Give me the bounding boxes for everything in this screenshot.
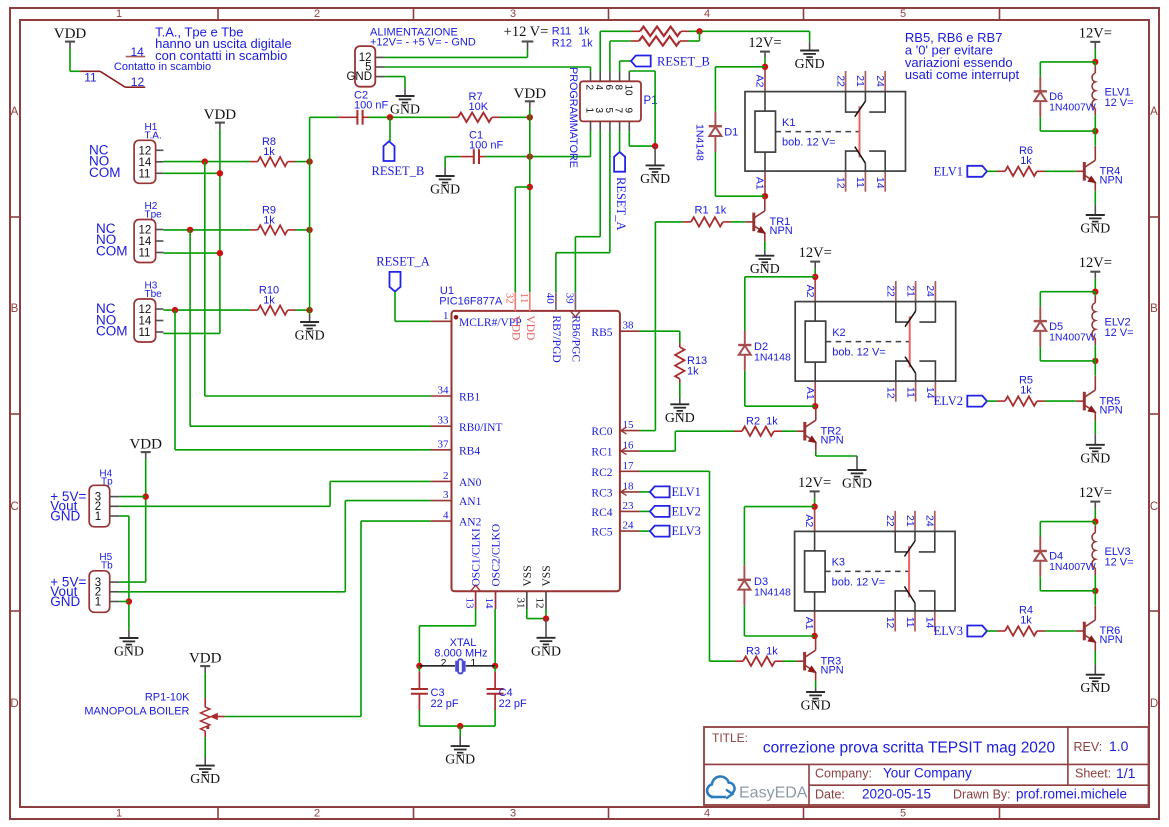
svg-text:RESET_B: RESET_B [372,164,425,178]
svg-text:1: 1 [116,808,122,820]
svg-text:1N4007W: 1N4007W [1049,561,1096,573]
svg-text:1: 1 [584,108,595,114]
svg-text:RP1-10K: RP1-10K [145,692,190,704]
svg-text:RC2: RC2 [591,467,612,479]
svg-text:Drawn By:: Drawn By: [953,788,1011,802]
svg-text:VDD: VDD [514,86,547,102]
svg-text:NPN: NPN [770,225,793,237]
svg-text:39: 39 [564,293,576,305]
svg-text:TITLE:: TITLE: [712,731,748,745]
svg-text:T.A.: T.A. [145,130,162,141]
svg-text:D1: D1 [724,127,738,139]
svg-text:VDD: VDD [189,651,222,667]
svg-text:MANOPOLA BOILER: MANOPOLA BOILER [84,706,189,718]
svg-text:38: 38 [623,320,635,332]
svg-text:A: A [11,106,19,118]
svg-text:11: 11 [139,169,151,181]
svg-text:34: 34 [438,385,450,397]
svg-text:GND: GND [50,508,80,523]
svg-text:2020-05-15: 2020-05-15 [862,787,931,802]
svg-text:12: 12 [139,146,152,158]
svg-text:EasyEDA: EasyEDA [739,785,808,802]
svg-text:RB7/PGD: RB7/PGD [550,315,562,362]
svg-text:Company:: Company: [815,767,872,781]
svg-text:R3 1k: R3 1k [746,646,778,658]
svg-text:1N4148: 1N4148 [693,124,705,161]
svg-text:1.0: 1.0 [1109,738,1129,754]
svg-text:K3: K3 [832,557,845,569]
svg-text:K2: K2 [832,327,845,339]
svg-text:14: 14 [139,316,152,328]
svg-text:D: D [1150,698,1158,710]
svg-text:OSC2/CLKO: OSC2/CLKO [491,524,503,587]
svg-text:VSS: VSS [522,565,534,586]
svg-text:1: 1 [116,8,122,20]
svg-text:1: 1 [443,310,449,322]
svg-text:D: D [10,698,18,710]
svg-text:Tb: Tb [101,561,113,572]
svg-text:1k: 1k [263,146,275,158]
svg-text:23: 23 [623,500,635,512]
svg-text:12: 12 [139,225,152,237]
svg-text:11: 11 [139,327,151,339]
svg-text:6: 6 [603,85,614,91]
svg-text:4: 4 [704,8,710,20]
svg-text:15: 15 [623,419,635,431]
svg-text:22 pF: 22 pF [499,698,527,710]
svg-text:NPN: NPN [821,665,844,677]
svg-text:1N4007W: 1N4007W [1049,331,1096,343]
svg-text:VDD: VDD [524,315,536,340]
svg-text:14: 14 [131,45,145,59]
svg-text:2: 2 [584,85,595,91]
svg-text:14: 14 [139,157,152,169]
svg-text:5: 5 [900,808,906,820]
svg-text:NPN: NPN [1100,634,1123,646]
svg-text:3: 3 [443,489,449,501]
svg-text:4: 4 [443,510,449,522]
svg-text:RC4: RC4 [591,507,612,519]
svg-text:OSC1/CLKI: OSC1/CLKI [471,528,483,586]
svg-text:Date:: Date: [815,788,845,802]
svg-text:1/1: 1/1 [1116,765,1136,781]
svg-text:ELV2: ELV2 [672,504,701,518]
svg-text:NPN: NPN [1100,404,1123,416]
svg-text:RC1: RC1 [591,447,612,459]
svg-text:33: 33 [438,415,450,427]
svg-text:VSS: VSS [541,565,553,586]
svg-text:1: 1 [95,511,101,523]
svg-text:R12: R12 [552,37,572,49]
svg-text:C: C [1150,501,1158,513]
svg-text:1N4148: 1N4148 [754,587,791,599]
svg-text:usati come interrupt: usati come interrupt [905,67,1020,82]
svg-text:con contatti in scambio: con contatti in scambio [155,48,287,63]
svg-text:PROGRAMMATORE: PROGRAMMATORE [567,67,579,168]
svg-text:40: 40 [544,293,556,305]
svg-text:12V=: 12V= [1079,255,1112,271]
svg-text:COM: COM [96,324,128,339]
svg-text:PIC16F877A: PIC16F877A [439,296,503,308]
svg-text:3: 3 [593,108,604,114]
svg-text:1: 1 [95,596,101,608]
svg-text:prof.romei.michele: prof.romei.michele [1016,787,1127,802]
svg-text:1N4148: 1N4148 [754,352,791,364]
svg-text:ELV3: ELV3 [672,524,701,538]
svg-text:VDD: VDD [129,437,162,453]
svg-text:11: 11 [139,248,151,260]
svg-text:K1: K1 [782,117,795,129]
svg-text:R2 1k: R2 1k [746,416,778,428]
svg-text:3: 3 [510,808,516,820]
svg-text:2: 2 [314,808,320,820]
svg-text:12V=: 12V= [748,35,781,51]
svg-text:14: 14 [483,598,495,610]
svg-text:RB1: RB1 [459,392,480,404]
svg-text:B: B [11,303,19,315]
svg-text:COM: COM [96,244,128,259]
svg-text:Tpe: Tpe [145,210,163,221]
svg-text:1k: 1k [581,37,593,49]
svg-text:1N4007W: 1N4007W [1049,102,1096,114]
svg-text:37: 37 [438,438,450,450]
svg-text:2: 2 [443,470,449,482]
svg-text:RB6/PGC: RB6/PGC [569,315,581,362]
svg-text:31: 31 [515,598,527,609]
svg-text:VDD: VDD [54,26,87,42]
svg-text:32: 32 [504,293,516,304]
svg-text:12: 12 [534,598,546,609]
svg-text:10K: 10K [469,101,489,113]
svg-text:3: 3 [510,8,516,20]
svg-text:8: 8 [613,85,624,91]
svg-text:22 pF: 22 pF [431,698,459,710]
svg-text:Tp: Tp [101,477,113,488]
svg-text:1k: 1k [263,214,275,226]
svg-text:RC3: RC3 [591,488,612,500]
svg-text:+12 V=: +12 V= [504,24,549,40]
svg-text:10: 10 [622,85,633,97]
svg-text:ELV1: ELV1 [672,485,701,499]
svg-text:16: 16 [623,440,635,452]
svg-text:RESET_B: RESET_B [657,55,710,69]
svg-text:12V=: 12V= [799,245,832,261]
svg-text:2: 2 [314,8,320,20]
svg-text:12 V=: 12 V= [1105,557,1134,569]
svg-text:4: 4 [704,808,710,820]
svg-text:1k: 1k [687,366,699,378]
svg-text:GND: GND [50,594,80,609]
svg-text:12V=: 12V= [798,475,831,491]
svg-text:12V=: 12V= [1079,25,1112,41]
svg-text:R1 1k: R1 1k [695,205,727,217]
svg-text:1k: 1k [263,295,275,307]
svg-text:100 nF: 100 nF [354,100,389,112]
svg-text:RB4: RB4 [459,445,480,457]
svg-text:+12V= - +5 V= - GND: +12V= - +5 V= - GND [370,37,476,49]
svg-text:24: 24 [623,520,635,532]
svg-text:1k: 1k [1020,155,1032,167]
svg-text:Tbe: Tbe [145,289,163,300]
svg-text:COM: COM [89,165,121,180]
svg-text:RB5: RB5 [591,327,612,339]
svg-text:AN2: AN2 [459,517,482,529]
svg-text:14: 14 [139,236,152,248]
svg-text:ELV1: ELV1 [934,164,963,178]
svg-text:4: 4 [593,85,604,91]
svg-text:7: 7 [613,108,624,114]
svg-text:B: B [1150,303,1158,315]
svg-text:1k: 1k [578,25,590,37]
svg-text:18: 18 [623,480,635,492]
svg-text:VDD: VDD [509,315,521,340]
svg-text:RC0: RC0 [591,426,612,438]
svg-text:VDD: VDD [204,107,237,123]
svg-text:12 V=: 12 V= [1105,327,1134,339]
svg-text:REV:: REV: [1074,740,1103,754]
svg-text:RC5: RC5 [591,527,612,539]
svg-text:R11: R11 [552,25,571,37]
svg-text:ELV3: ELV3 [934,624,963,638]
svg-text:12: 12 [139,304,152,316]
svg-text:12V=: 12V= [1079,485,1112,501]
svg-text:5: 5 [603,108,614,114]
svg-text:NPN: NPN [821,435,844,447]
svg-text:9: 9 [622,108,633,114]
svg-text:RB0/INT: RB0/INT [459,422,502,434]
svg-text:Sheet:: Sheet: [1075,767,1111,781]
svg-text:1k: 1k [1020,385,1032,397]
svg-text:2: 2 [441,657,447,669]
svg-text:AN0: AN0 [459,477,482,489]
svg-text:NPN: NPN [1100,175,1123,187]
svg-text:17: 17 [623,460,635,472]
svg-text:AN1: AN1 [459,496,482,508]
svg-text:Your Company: Your Company [883,766,972,781]
svg-text:5: 5 [900,8,906,20]
svg-text:A: A [1150,106,1158,118]
svg-text:1: 1 [470,657,476,669]
svg-text:13: 13 [463,598,475,610]
svg-text:C: C [10,501,18,513]
svg-text:ELV2: ELV2 [934,394,963,408]
svg-text:11: 11 [84,70,97,84]
svg-text:11: 11 [518,293,530,304]
svg-text:12 V=: 12 V= [1105,97,1134,109]
svg-text:RESET_A: RESET_A [614,177,628,230]
svg-text:GND: GND [346,71,372,83]
svg-text:12: 12 [131,75,145,89]
svg-text:RESET_A: RESET_A [376,255,429,269]
svg-text:correzione prova scritta TEPSI: correzione prova scritta TEPSIT mag 2020 [763,740,1056,757]
svg-text:1k: 1k [1020,615,1032,627]
